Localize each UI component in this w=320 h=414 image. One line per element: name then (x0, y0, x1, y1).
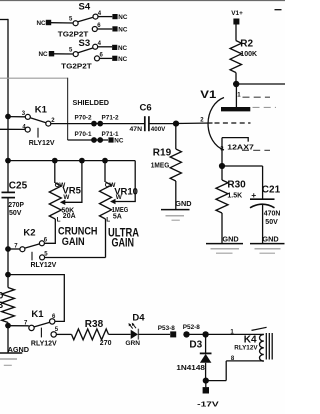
wire gain bus (8, 160, 135, 162)
svg-text:RLY12V: RLY12V (31, 262, 57, 269)
capacitor C25 value 270P (8, 202, 24, 209)
wire (8, 116, 25, 118)
svg-text:NC: NC (39, 51, 49, 58)
junction D3 top (202, 331, 208, 337)
svg-text:S4: S4 (79, 2, 91, 13)
svg-text:RLY12V: RLY12V (29, 140, 55, 147)
resistor on left rail (2, 288, 15, 323)
svg-text:C21: C21 (262, 185, 281, 196)
diode D3 cathode bar (200, 352, 212, 354)
svg-text:270: 270 (100, 340, 112, 347)
svg-text:NC: NC (114, 138, 124, 145)
switch S4 label (79, 2, 91, 13)
K2 pin 7 (14, 244, 25, 252)
tube V1 envelope arc (208, 98, 224, 151)
wire (235, 84, 237, 107)
tube V1 plate (221, 107, 250, 111)
svg-text:SHIELDED: SHIELDED (73, 100, 110, 107)
K1 lower pin 7 (24, 321, 34, 331)
wire (235, 24, 237, 40)
wire (222, 165, 263, 167)
wire (206, 380, 226, 382)
relay coil K4 pin 8 label (231, 356, 235, 362)
clipped mark top right (275, 9, 282, 11)
wire plate row to right edge (236, 83, 285, 85)
tube V1 grid dashes (215, 122, 251, 124)
resistor R19 value 1MEG (151, 162, 170, 169)
ground GND (R19) (161, 199, 192, 220)
svg-text:400V: 400V (151, 126, 166, 133)
potentiometer VR5 (49, 183, 61, 219)
svg-text:50V: 50V (265, 219, 278, 226)
svg-text:P70-2: P70-2 (75, 115, 92, 122)
svg-text:V1: V1 (200, 89, 216, 101)
wire (235, 73, 237, 85)
wire left rail mid (7, 198, 9, 288)
K1 lower actuator (40, 328, 42, 338)
power V1+ (231, 10, 243, 25)
wire (205, 363, 207, 381)
capacitor C6 value 400V (151, 126, 166, 133)
LED D4 color GRN (125, 340, 140, 347)
wire (98, 46, 112, 48)
svg-text:GND: GND (222, 234, 238, 243)
capacitor C6 value 47N (130, 126, 143, 133)
svg-text:47N: 47N (130, 126, 143, 133)
svg-text:W: W (116, 194, 123, 201)
capacitor C25 label (9, 180, 28, 191)
connector label P71-1 (102, 131, 119, 138)
switch S4 pin 6 (92, 23, 101, 31)
ground AGND (0, 345, 29, 365)
relay switch K2 label (23, 227, 35, 238)
svg-text:K1: K1 (35, 105, 48, 116)
label CRUNCH GAIN (58, 226, 98, 248)
junction VR10 CW tap (102, 158, 108, 164)
svg-text:D4: D4 (132, 312, 145, 323)
svg-text:R30: R30 (227, 180, 246, 191)
svg-text:1MEG: 1MEG (151, 162, 170, 169)
tube V1 envelope bottom dashes (242, 149, 270, 151)
svg-text:GND: GND (262, 234, 278, 243)
switch S4 pin 4 (93, 11, 102, 19)
wire (175, 181, 177, 210)
ground GND (R30) (206, 234, 243, 253)
relay coil K4 type RLY12V (234, 344, 258, 351)
power -17V (197, 387, 219, 408)
wire left rail upper (7, 19, 9, 192)
svg-text:NC: NC (37, 20, 47, 27)
K1 lower coil label RLY12V (31, 340, 57, 347)
wire loop (8, 275, 64, 322)
relay coil K4 core (266, 333, 272, 360)
resistor R30 value 1.5K (227, 192, 242, 199)
junction P70-2 (91, 121, 97, 127)
junction rail-gain bus (5, 158, 11, 164)
wire (221, 138, 223, 166)
tube V1 envelope faint dashes right of plate (253, 106, 277, 108)
LED D4 cathode bar (137, 329, 139, 340)
potentiometer VR10 value 5A (113, 214, 122, 221)
junction rail-K2 pin7 (5, 246, 11, 252)
switch S4 pin 5 (69, 17, 78, 26)
svg-text:100K: 100K (240, 51, 257, 58)
svg-text:C6: C6 (140, 102, 152, 113)
wire (226, 360, 264, 362)
LED D4 arrows (129, 323, 137, 329)
svg-text:1.5K: 1.5K (227, 192, 242, 199)
svg-text:GAIN: GAIN (112, 235, 135, 249)
wire from left edge to rail (0, 19, 8, 21)
switch S4 lever (78, 17, 93, 22)
wire shield bottom (68, 139, 108, 141)
resistor R38 value 270 (100, 340, 112, 347)
svg-text:K1: K1 (31, 309, 44, 320)
wire (262, 166, 264, 199)
junction D3 bottom (203, 378, 209, 384)
potentiometer VR5 CW label (55, 182, 67, 189)
svg-text:20A: 20A (63, 213, 76, 220)
NC pad at S3 pin 6 (112, 56, 127, 63)
K1 lever (30, 118, 46, 123)
NC pad at S4 pin 4 (112, 14, 127, 21)
svg-text:5A: 5A (113, 214, 122, 221)
K1 lower pin 5 (51, 327, 59, 337)
wire (51, 22, 73, 24)
capacitor C25 value 50V (9, 210, 22, 217)
wire (104, 161, 106, 182)
relay coil K4 top tick (252, 327, 267, 330)
diode D3 label (189, 339, 202, 350)
potentiometer VR5 value 20A (63, 213, 76, 220)
switch S3 pin 4 (93, 41, 102, 49)
capacitor C21 top plate (250, 198, 275, 200)
wire (8, 248, 20, 250)
svg-text:NC: NC (118, 56, 128, 63)
svg-text:GND: GND (175, 199, 191, 208)
svg-text:GAIN: GAIN (62, 236, 85, 248)
wire left rail lower (7, 323, 9, 354)
tube V1 cathode (222, 138, 248, 142)
wire (175, 124, 177, 149)
wire VR5 bottom to K2 pin 6 (45, 219, 56, 243)
svg-text:K2: K2 (23, 227, 35, 238)
capacitor C25 plates (2, 192, 16, 197)
capacitor C21 plus sign (251, 190, 256, 200)
wire (100, 57, 113, 59)
capacitor C6 plates (145, 116, 149, 131)
capacitor C21 value 50V (265, 219, 278, 226)
connector label P70-1 (75, 131, 92, 138)
wire (138, 333, 170, 335)
svg-text:P70-1: P70-1 (75, 131, 92, 138)
svg-text:12AX7: 12AX7 (227, 144, 254, 151)
svg-text:R19: R19 (153, 147, 172, 158)
relay coil K4 label (244, 334, 257, 345)
resistor R30 (216, 180, 228, 213)
wire (109, 333, 131, 335)
NC pad left of S3 pin 5 (39, 51, 55, 58)
wire (54, 53, 73, 55)
K2 pin 5 (40, 251, 49, 260)
K1 pin 2 (46, 118, 55, 126)
wire VR5 wiper (65, 161, 82, 203)
wire (97, 28, 112, 30)
capacitor C21 curved plate (250, 204, 275, 208)
wire (262, 205, 264, 244)
resistor R2 (230, 41, 241, 73)
svg-text:GRN: GRN (125, 340, 140, 347)
svg-text:270P: 270P (8, 202, 24, 209)
svg-text:C25: C25 (9, 180, 28, 191)
svg-text:50V: 50V (9, 210, 22, 217)
potentiometer VR10 wiper arrow (110, 194, 123, 204)
junction P70-1 (91, 137, 97, 143)
potentiometer VR5 value 50K (61, 207, 74, 214)
wire (56, 333, 71, 335)
svg-text:W: W (63, 194, 70, 201)
capacitor C21 label (262, 185, 281, 196)
capacitor C6 label (140, 102, 152, 113)
tube V1 cathode pin 3 label (220, 147, 224, 153)
junction cathode node (219, 163, 225, 169)
relay switch K1 label (35, 105, 48, 116)
wire to -17V (205, 381, 207, 388)
junction R2-plate (233, 81, 239, 87)
wire to V1 grid (176, 122, 213, 125)
relay switch K1 (lower) label (31, 309, 44, 320)
K1 coil label RLY12V (29, 140, 55, 147)
wire (221, 166, 223, 180)
K1 pin 3 (22, 111, 31, 119)
svg-text:P53-8: P53-8 (158, 325, 175, 332)
tube V1 label (200, 89, 216, 101)
wire (205, 334, 207, 353)
K2 pin 6 (39, 237, 47, 246)
svg-text:S3: S3 (79, 38, 91, 49)
resistor R30 label (227, 180, 246, 191)
svg-text:NC: NC (118, 45, 128, 52)
K2 lever (25, 244, 40, 248)
NC pad shield (108, 137, 123, 144)
potentiometer VR5 L label (57, 217, 61, 224)
wire VR10 bottom to K2 pin 5 (105, 219, 107, 258)
svg-text:RLY12V: RLY12V (31, 340, 57, 347)
svg-text:NC: NC (118, 27, 128, 34)
potentiometer VR5 wiper arrow (60, 194, 71, 205)
connector P52-8 (183, 324, 200, 337)
potentiometer VR10 L label (106, 216, 110, 223)
svg-text:470N: 470N (264, 210, 281, 217)
wire to K1 pin 4 (0, 128, 25, 130)
tube V1 type 12AX7 (227, 144, 254, 151)
NC pad at S3 pin 4 (112, 45, 127, 52)
LED D4 triangle (131, 330, 138, 339)
wire VR10 wiper (115, 161, 135, 202)
junction P71-1 (97, 137, 103, 143)
ground GND (C21) (250, 234, 285, 253)
svg-text:V1+: V1+ (231, 10, 243, 17)
tube V1 grid pin 2 label (200, 117, 204, 123)
V1 pin 1 label (237, 93, 241, 99)
connector P53-8 (158, 325, 176, 337)
NC pad at S4 pin 6 (112, 26, 127, 33)
K1 lower lever (34, 322, 49, 327)
junction rail-loop (5, 272, 11, 278)
wire (54, 161, 56, 183)
resistor R2 label (240, 39, 253, 50)
wire grid row (51, 123, 144, 125)
switch S4 type label TG2P2T (58, 29, 89, 38)
resistor R2 value 100K (240, 51, 257, 58)
svg-text:P52-8: P52-8 (183, 324, 200, 331)
shield boundary faint (0, 77, 68, 79)
junction VR5 CW tap (52, 158, 58, 164)
wire (187, 333, 264, 335)
wire (45, 257, 106, 259)
K2 actuator (31, 252, 33, 261)
wire (225, 361, 227, 381)
diode D3 value 1N4148 (176, 365, 205, 372)
junction C6-R19-grid (173, 121, 179, 127)
potentiometer VR10 CW label (105, 182, 117, 189)
switch S3 pin 6 (95, 53, 104, 61)
svg-text:L: L (57, 217, 61, 224)
wire (8, 325, 29, 327)
potentiometer VR10 value 1MEG (112, 207, 129, 214)
junction rail-K1 pin3 (5, 114, 11, 120)
switch S3 lever (78, 48, 93, 53)
K1 pin 4 (22, 124, 30, 132)
switch S3 type label TG2P2T (61, 61, 92, 70)
potentiometer VR10 (100, 182, 112, 219)
svg-text:1N4148: 1N4148 (176, 365, 205, 372)
svg-text:TG2P2T: TG2P2T (61, 61, 92, 70)
potentiometer VR10 label (114, 186, 138, 197)
junction VR5 wiper tap (79, 158, 85, 164)
capacitor C21 value 470N (264, 210, 281, 217)
K1 actuator (37, 128, 39, 138)
NC pad left of S4 pin 5 (37, 20, 52, 27)
relay coil K4 pin 1 label (230, 330, 234, 336)
junction P71-2 (97, 121, 103, 127)
svg-text:R2: R2 (240, 39, 253, 50)
resistor R19 label (153, 147, 172, 158)
resistor R19 (170, 149, 181, 181)
svg-text:L: L (106, 216, 110, 223)
K1 lower pin 6 (50, 314, 57, 324)
tube V1 envelope top dashes (243, 96, 271, 98)
wire (221, 213, 223, 244)
resistor R38 label (85, 319, 104, 330)
resistor (label clipped) value 0 (0, 291, 3, 302)
svg-text:D3: D3 (189, 339, 202, 350)
resistor R38 (72, 329, 109, 340)
svg-text:P71-2: P71-2 (102, 115, 119, 122)
svg-text:RLY12V: RLY12V (234, 344, 258, 351)
K2 coil label RLY12V (31, 262, 57, 269)
connector label P70-2 (75, 115, 92, 122)
resistor (label clipped) value 3 (0, 300, 3, 311)
connector label P71-2 (102, 115, 119, 122)
switch S3 pin 5 (69, 47, 78, 56)
shield boundary vertical (67, 78, 69, 140)
LED D4 label (132, 312, 145, 323)
label ULTRA GAIN (108, 225, 139, 249)
switch S3 label (79, 38, 91, 49)
svg-text:-17V: -17V (197, 399, 219, 408)
relay coil K4 winding (259, 334, 263, 361)
junction rail-K1b pin7 (5, 323, 11, 329)
diode D3 triangle (200, 354, 212, 363)
svg-text:NC: NC (118, 14, 128, 21)
wire (149, 123, 176, 125)
SHIELDED label (73, 100, 110, 107)
potentiometer VR5 label (62, 185, 81, 196)
wire (98, 16, 112, 18)
